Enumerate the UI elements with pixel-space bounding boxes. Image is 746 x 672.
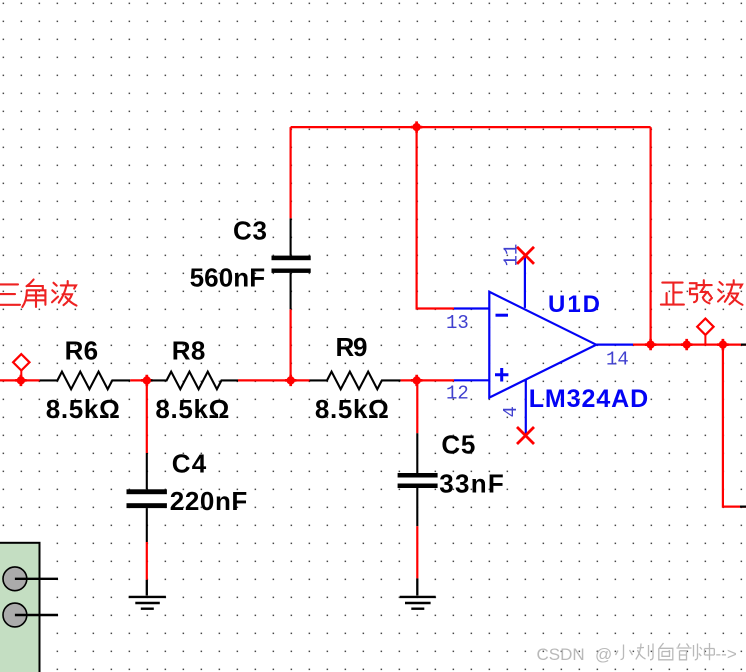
capacitor C3 [190, 215, 311, 309]
pin 4 line [525, 379, 527, 435]
capacitor C4 [127, 380, 248, 542]
pin 14 output stub [596, 344, 633, 346]
wire: output to right edge [633, 344, 746, 346]
svg-text:8.5kΩ: 8.5kΩ [315, 394, 389, 424]
ground (under C4) [129, 580, 166, 609]
svg-text:11: 11 [501, 244, 523, 267]
no-connect X on pin 4 [517, 427, 534, 444]
svg-text:4: 4 [500, 406, 522, 417]
junction: C5 tap [411, 375, 422, 386]
resistor R6 [40, 336, 131, 424]
junction: input node [15, 375, 26, 386]
junction: C3 bottom tap [285, 375, 296, 386]
svg-text:R8: R8 [172, 336, 206, 366]
wire: C5 to ground [416, 526, 418, 578]
capacitor C5 [398, 380, 504, 526]
wire: feedback right vertical drop to output [649, 127, 651, 345]
wire: R9 to pin 12 [401, 379, 454, 381]
wire: R6 to R8 [130, 379, 151, 381]
pin 13 stub [454, 307, 489, 309]
svg-text:13: 13 [446, 312, 469, 334]
junction: feedback corner on output [645, 339, 656, 350]
plus sign [495, 368, 508, 382]
svg-text:220nF: 220nF [170, 486, 248, 516]
wire: C3 top vertical [290, 127, 292, 218]
svg-text:C3: C3 [233, 215, 267, 245]
wire: right vertical drop [723, 345, 746, 507]
pin circle 2 [3, 603, 27, 627]
svg-text:33nF: 33nF [439, 468, 504, 498]
connector diamond: 正弦波 output [697, 319, 713, 345]
resistor R9 [310, 332, 401, 424]
net label 正弦波 (sine wave, red CJK drawn as paths) [661, 280, 743, 305]
junction: right drop tap [717, 339, 728, 350]
pin stub 1 [15, 578, 58, 580]
svg-text:LM324AD: LM324AD [529, 385, 649, 413]
junction: C4 tap [141, 375, 152, 386]
black lead tip at right edge (lower wire) [740, 506, 746, 508]
wire: main input from left edge [0, 379, 40, 381]
op-amp U1D LM324AD [446, 244, 648, 444]
svg-text:R9: R9 [336, 332, 368, 362]
svg-text:8.5kΩ: 8.5kΩ [46, 394, 120, 424]
minus sign [496, 314, 509, 317]
wire: R8 to R9 [238, 379, 310, 381]
junction: sine label tap [681, 339, 692, 350]
svg-text:8.5kΩ: 8.5kΩ [155, 394, 229, 424]
wire: pin 13 branch (vertical + horizontal) [417, 127, 454, 308]
triangle body [489, 292, 596, 398]
svg-text:-->: --> [716, 645, 737, 664]
no-connect X on pin 11 [517, 247, 534, 264]
svg-text:C4: C4 [172, 448, 207, 478]
svg-text:560nF: 560nF [190, 262, 266, 292]
black lead tip at right edge (output wire) [741, 344, 746, 346]
svg-text:12: 12 [446, 383, 469, 405]
pin stub 2 [15, 614, 58, 616]
connector diamond: 三角波 input [13, 354, 29, 380]
net label 三角波 (triangle wave, red CJK drawn as paths) [0, 280, 77, 308]
junction: feedback tap to pin 13 [411, 121, 422, 132]
svg-text:@: @ [595, 645, 612, 664]
resistor R8 [151, 336, 238, 424]
pin 12 stub [454, 379, 489, 381]
pin 11 line [524, 255, 526, 308]
svg-text:C5: C5 [441, 429, 475, 459]
svg-text:U1D: U1D [548, 291, 600, 318]
svg-text:14: 14 [606, 348, 629, 370]
svg-text:CSDN: CSDN [537, 645, 585, 664]
connector block (green) bottom-left [0, 543, 58, 672]
ground (under C5) [400, 578, 436, 608]
wire: C3 bottom vertical [290, 309, 292, 380]
svg-text:R6: R6 [65, 336, 99, 366]
wire: top feedback horizontal [291, 126, 651, 128]
wire: C4 to ground [146, 542, 148, 580]
pin circle 1 [3, 567, 27, 591]
